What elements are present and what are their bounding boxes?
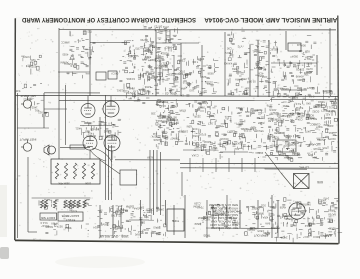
svg-text:470K .02: 470K .02 [165, 92, 177, 96]
svg-text:550: 550 [140, 221, 145, 225]
svg-text:2CR: 2CR [255, 61, 260, 65]
svg-text:INST INPUT: INST INPUT [20, 137, 37, 141]
wire [183, 149, 216, 151]
svg-text:094RA: 094RA [235, 77, 243, 81]
svg-text:1CC: 1CC [310, 122, 315, 126]
wire [277, 200, 279, 238]
svg-text:0V.02: 0V.02 [126, 91, 133, 95]
svg-text:04878: 04878 [303, 202, 311, 206]
wire [160, 152, 162, 215]
svg-text:5RA07: 5RA07 [170, 137, 179, 141]
svg-text:M12: M12 [83, 202, 89, 206]
wire [281, 89, 307, 91]
RC cluster mixer [116, 79, 157, 98]
wire [201, 45, 203, 96]
svg-text:5501: 5501 [162, 100, 168, 104]
wire heater tap 5 [241, 158, 243, 172]
svg-text:045: 045 [306, 102, 311, 106]
svg-text:63M: 63M [186, 125, 192, 129]
svg-text:8V291: 8V291 [317, 138, 325, 142]
resistor R12 [53, 200, 56, 208]
svg-text:MM0: MM0 [287, 156, 293, 160]
svg-text:7K5: 7K5 [322, 146, 327, 150]
RC cluster tone stack [174, 56, 219, 97]
svg-text:AM3K: AM3K [250, 227, 258, 231]
svg-text:330K 47K: 330K 47K [58, 182, 70, 186]
svg-text:5457: 5457 [14, 89, 20, 93]
wire [108, 145, 110, 200]
svg-text:917: 917 [85, 130, 90, 134]
svg-text:RED: RED [325, 116, 331, 120]
RC cluster phase inverter [179, 101, 221, 151]
svg-text:K01: K01 [75, 126, 80, 130]
RC cluster coupling caps [216, 106, 245, 146]
svg-text:R034: R034 [75, 204, 82, 208]
box filter block [277, 140, 296, 152]
svg-text:55V4: 55V4 [257, 129, 264, 133]
wire [153, 150, 155, 215]
resistor R3 [73, 163, 76, 179]
svg-text:2409: 2409 [327, 124, 333, 128]
svg-text:TR33: TR33 [203, 234, 210, 238]
wire heater tap 1 [189, 158, 191, 172]
svg-text:5A9R: 5A9R [201, 101, 208, 105]
svg-text:2K0M: 2K0M [193, 204, 201, 208]
svg-text:679R: 679R [179, 108, 185, 112]
wire to T1 [281, 173, 294, 188]
svg-text:2A0K: 2A0K [153, 138, 160, 142]
svg-text:SPKR OUT: SPKR OUT [254, 234, 269, 238]
svg-text:518: 518 [293, 64, 298, 68]
svg-text:583: 583 [232, 67, 237, 71]
wire [44, 108, 67, 110]
svg-text:3448V: 3448V [51, 221, 59, 225]
wire top bus [59, 29, 336, 31]
wire [111, 145, 113, 200]
resistor R1 [55, 163, 58, 179]
tube V5 (6V6 output) [289, 203, 305, 219]
box coupling network 2 [108, 71, 117, 79]
box tube chart [58, 212, 83, 221]
svg-text:C270: C270 [306, 67, 313, 71]
svg-text:912: 912 [38, 111, 43, 115]
wire V4 cathode lead [111, 151, 113, 160]
svg-text:47526: 47526 [317, 103, 325, 107]
svg-text:C1KA: C1KA [191, 154, 198, 158]
wire [165, 30, 167, 43]
resistor R11 [44, 200, 47, 208]
svg-text:49052: 49052 [292, 152, 300, 156]
wire [265, 168, 307, 170]
svg-text:25VC6: 25VC6 [295, 68, 304, 72]
svg-text:24C7: 24C7 [281, 235, 288, 239]
svg-text:52V.: 52V. [232, 226, 238, 230]
svg-text:177: 177 [172, 122, 177, 126]
svg-text:AVMM: AVMM [60, 61, 69, 65]
svg-text:42C7: 42C7 [164, 46, 171, 50]
svg-text:158.: 158. [151, 45, 156, 49]
svg-text:V297: V297 [269, 112, 276, 116]
svg-text:250: 250 [243, 92, 248, 96]
svg-text:M77: M77 [321, 109, 327, 113]
scan smudge bottom-left edge [0, 247, 9, 259]
svg-text:2V5A4: 2V5A4 [133, 206, 142, 210]
svg-text:8838: 8838 [207, 71, 213, 75]
svg-text:R85: R85 [284, 140, 289, 144]
svg-text:554.: 554. [296, 203, 301, 207]
label cluster heater notes [191, 141, 266, 159]
svg-text:1905 - GVC-9014A: 1905 - GVC-9014A [99, 234, 129, 238]
svg-text:3.006: 3.006 [249, 127, 256, 131]
svg-text:117VAC: 117VAC [299, 166, 309, 170]
svg-text:5.4: 5.4 [73, 209, 77, 213]
wire from T1 [265, 152, 281, 173]
wire [257, 200, 259, 228]
RC cluster oscillator [281, 55, 316, 84]
svg-text:4721: 4721 [278, 118, 284, 122]
svg-text:7.RK: 7.RK [192, 60, 198, 64]
resistor R13 [64, 200, 67, 208]
tube V2 (preamp triode) [103, 101, 119, 117]
RC cluster screen supply [250, 204, 266, 220]
wire between triode rows [80, 125, 112, 127]
box fuse holder [70, 145, 85, 149]
wire [90, 42, 130, 44]
RC cluster coupling [225, 31, 254, 65]
svg-text:C1K77: C1K77 [161, 29, 170, 33]
svg-text:54V73: 54V73 [283, 134, 291, 138]
svg-text:0K2C: 0K2C [283, 214, 290, 218]
wire [206, 227, 278, 229]
wire [149, 150, 151, 213]
svg-text:28V0: 28V0 [134, 232, 141, 236]
svg-text:R00: R00 [293, 95, 298, 99]
resistor R14 [68, 200, 71, 208]
scan streak left margin [0, 185, 7, 237]
svg-text:1475: 1475 [323, 197, 329, 201]
svg-text:8AA: 8AA [265, 222, 270, 226]
resistor R2 [64, 163, 67, 179]
svg-text:.4822: .4822 [194, 222, 201, 226]
RC cluster output stage [262, 197, 342, 244]
svg-text:.2574: .2574 [210, 146, 217, 150]
dense cluster voltage chart [193, 202, 241, 231]
wire [140, 200, 142, 238]
label cluster input attenuator [21, 55, 41, 74]
svg-text:8RA2: 8RA2 [327, 208, 334, 212]
scan tint inside frame [15, 17, 338, 241]
svg-text:SCHEMATIC DIAGRAM COURTESY OF: SCHEMATIC DIAGRAM COURTESY OF MONTGOMERY… [21, 16, 196, 22]
svg-text:957: 957 [172, 115, 177, 119]
svg-text:56122: 56122 [309, 117, 317, 121]
label row divider resistors [39, 199, 92, 213]
wire V1 plate lead [87, 96, 89, 104]
svg-text:1795: 1795 [202, 216, 208, 220]
wire [112, 205, 114, 238]
wire [169, 30, 171, 43]
svg-text:C21K7: C21K7 [227, 130, 236, 134]
svg-text:KC98A: KC98A [126, 77, 135, 81]
svg-text:071: 071 [307, 153, 312, 157]
wire [129, 219, 149, 221]
wire [28, 231, 37, 233]
svg-text:815: 815 [305, 50, 310, 54]
svg-text:2220: 2220 [200, 75, 206, 79]
resistor R4 [82, 163, 85, 179]
wire [257, 40, 259, 97]
wire [43, 93, 45, 128]
svg-text:249: 249 [153, 75, 158, 79]
svg-text:01729: 01729 [140, 38, 148, 42]
svg-text:6.3V: 6.3V [147, 156, 153, 160]
wire [173, 55, 175, 85]
wire heater bus B [180, 167, 338, 169]
svg-text:42173: 42173 [159, 61, 167, 65]
svg-text:62CR: 62CR [204, 140, 211, 144]
jack J2 (instrument input) [21, 140, 32, 152]
svg-text:1107M: 1107M [125, 204, 134, 208]
wire [65, 85, 67, 145]
resistor R17 [83, 200, 86, 208]
svg-text:2K594: 2K594 [255, 151, 263, 155]
wire B+ bus [16, 95, 339, 96]
box control panel strip [167, 209, 184, 231]
svg-text:K4VK5: K4VK5 [223, 62, 232, 66]
frame right border [338, 16, 339, 244]
transformer T1 (X-box) [294, 174, 310, 189]
wire [285, 31, 287, 50]
wire [99, 205, 101, 238]
svg-text:19.05: 19.05 [181, 129, 188, 133]
svg-text:091VA: 091VA [220, 137, 228, 141]
svg-text:2.K: 2.K [70, 64, 74, 68]
wire [239, 200, 241, 228]
svg-text:4A046: 4A046 [307, 222, 315, 226]
svg-text:RR3.: RR3. [314, 91, 320, 95]
wire triode link [99, 117, 101, 136]
RC cluster cathode network [223, 62, 253, 96]
svg-text:1W: 1W [326, 109, 331, 113]
label column vibrato [248, 40, 283, 97]
resistor R16 [77, 200, 80, 208]
svg-text:1V.5: 1V.5 [189, 88, 195, 92]
svg-text:19MA: 19MA [116, 226, 123, 230]
svg-text:9700: 9700 [211, 226, 217, 230]
speaker SP1 [44, 145, 56, 155]
svg-text:501R.: 501R. [184, 72, 191, 76]
svg-text:722: 722 [87, 29, 92, 33]
wire [173, 205, 175, 235]
svg-text:32M1: 32M1 [240, 127, 247, 131]
scan noise speckle field [16, 18, 338, 240]
svg-text:4C8: 4C8 [258, 72, 263, 76]
dense cluster reverb driver [151, 99, 184, 149]
svg-text:21444: 21444 [299, 209, 307, 213]
wire [159, 55, 161, 85]
wire [224, 32, 226, 96]
svg-text:97100: 97100 [198, 133, 206, 137]
wire V3 cathode lead [89, 150, 91, 159]
wire [58, 71, 90, 73]
svg-text:C4.: C4. [180, 93, 184, 97]
svg-text:C1M9: C1M9 [297, 78, 305, 82]
svg-text:1.5 REG: 1.5 REG [320, 234, 332, 238]
wire [59, 99, 270, 101]
svg-text:375: 375 [135, 47, 140, 51]
label row bias [280, 86, 332, 100]
svg-text:V72: V72 [237, 45, 242, 49]
wire [17, 127, 49, 129]
svg-text:5730: 5730 [121, 208, 127, 212]
svg-text:04M: 04M [308, 94, 314, 98]
RC cluster V1 plate load [85, 122, 103, 140]
wire arc to reverb box [92, 148, 112, 162]
wire [105, 95, 107, 200]
wire [206, 200, 208, 238]
frame bottom border [15, 240, 339, 243]
wire heater tap 2 [202, 158, 204, 172]
RC cluster power section [266, 94, 337, 161]
wire arc V3 lead [90, 150, 105, 161]
svg-text:.5C7: .5C7 [207, 122, 213, 126]
sparse cluster [123, 89, 151, 103]
svg-text:V00: V00 [199, 91, 204, 95]
RC cluster channel 1 [111, 40, 153, 81]
wire heater tap 4 [228, 158, 230, 172]
wire [155, 30, 157, 96]
svg-text:321: 321 [224, 115, 229, 119]
svg-text:356: 356 [304, 73, 309, 77]
svg-text:0924: 0924 [292, 55, 298, 59]
svg-text:214: 214 [93, 226, 98, 230]
svg-text:2K713: 2K713 [154, 24, 162, 28]
svg-text:0475: 0475 [304, 129, 310, 133]
svg-text:K254: K254 [272, 135, 279, 139]
svg-text:315: 315 [182, 80, 187, 84]
svg-text:51.0: 51.0 [295, 102, 301, 106]
svg-text:MK436: MK436 [90, 128, 99, 132]
svg-text:K13: K13 [142, 90, 147, 94]
svg-text:AIRLINE MUSICAL AMP. MODEL GVC: AIRLINE MUSICAL AMP. MODEL GVC-9014A [204, 16, 338, 22]
svg-text:6V6: 6V6 [317, 180, 323, 184]
svg-text:140C: 140C [144, 46, 150, 50]
svg-text:5C0: 5C0 [260, 204, 265, 208]
wire heater tap 6 [254, 158, 256, 172]
svg-text:900.0: 900.0 [313, 235, 320, 239]
wire [271, 62, 317, 64]
svg-text:722: 722 [244, 88, 249, 92]
wire heater bus A [180, 162, 338, 164]
svg-text:C00: C00 [226, 47, 231, 51]
svg-text:FOOT SW: FOOT SW [41, 216, 55, 220]
svg-text:4V2.: 4V2. [233, 147, 239, 151]
wire [165, 200, 167, 225]
voltage chart table [208, 203, 238, 230]
wire [120, 208, 122, 232]
box oscillator can [288, 43, 301, 51]
svg-text:205: 205 [151, 112, 156, 116]
wire heater tap 3 [215, 158, 217, 172]
svg-text:95A8: 95A8 [137, 74, 144, 78]
RC cluster top right [296, 35, 316, 61]
resistor R5 [91, 163, 94, 179]
box foot-switch [40, 213, 57, 220]
svg-text:.MMCC: .MMCC [61, 40, 70, 44]
svg-text:083: 083 [193, 134, 198, 138]
resistor R10 [40, 200, 43, 208]
svg-text:432R: 432R [150, 58, 156, 62]
tube V3 (preamp triode) [83, 136, 97, 150]
svg-text:1R4.5: 1R4.5 [153, 225, 161, 229]
svg-text:A29R2: A29R2 [105, 135, 114, 139]
wire [181, 172, 183, 196]
svg-text:V14.C: V14.C [40, 221, 48, 225]
svg-text:5Y3GT: 5Y3GT [66, 218, 76, 222]
svg-text:248R: 248R [157, 208, 163, 212]
svg-text:R564: R564 [64, 226, 71, 230]
svg-text:05.0R: 05.0R [248, 80, 255, 84]
wire [156, 150, 158, 212]
svg-text:2A1A1: 2A1A1 [252, 49, 261, 53]
svg-text:100K: 100K [85, 182, 91, 186]
svg-text:VA44: VA44 [156, 119, 163, 123]
svg-text:0KRK1: 0KRK1 [255, 212, 264, 216]
svg-text:5250.: 5250. [282, 104, 289, 108]
svg-text:KRA: KRA [262, 216, 268, 220]
svg-text:C90: C90 [295, 108, 300, 112]
jack J1 (mic input) [21, 97, 32, 109]
label cluster [14, 84, 42, 93]
svg-text:520: 520 [31, 58, 36, 62]
wire [60, 147, 90, 149]
svg-text:C74A: C74A [217, 226, 224, 230]
RC cluster filter caps [133, 205, 165, 237]
svg-text:0CR2: 0CR2 [312, 110, 319, 114]
svg-text:500: 500 [290, 223, 295, 227]
svg-text:12AX7 6BQ5: 12AX7 6BQ5 [61, 214, 79, 218]
svg-text:V5427: V5427 [307, 86, 315, 90]
RC cluster mic input network [23, 97, 49, 117]
wire [212, 205, 214, 228]
wire [89, 30, 91, 96]
svg-text:16504: 16504 [270, 226, 278, 230]
svg-text:49A: 49A [328, 131, 333, 135]
RC cluster bias network [240, 107, 273, 150]
wire [44, 92, 100, 94]
svg-text:4035: 4035 [62, 53, 68, 57]
box tone/output network [51, 159, 100, 184]
box coupling network [96, 72, 106, 80]
wire [316, 55, 318, 75]
wire [268, 40, 270, 97]
svg-text:70RR: 70RR [216, 124, 223, 128]
svg-text:83A: 83A [260, 121, 265, 125]
svg-text:.4330: .4330 [284, 144, 291, 148]
svg-text:TONE: TONE [172, 219, 179, 223]
svg-text:4R4: 4R4 [180, 87, 185, 91]
wire [329, 28, 331, 95]
wire [265, 155, 298, 157]
wire [115, 159, 180, 161]
RC cluster around V1 grid [60, 29, 96, 78]
svg-text:O-AMP: O-AMP [308, 143, 318, 147]
wire [58, 28, 60, 159]
svg-text:RA77: RA77 [235, 122, 242, 126]
wire [271, 195, 273, 238]
svg-text:8A738: 8A738 [328, 213, 336, 217]
svg-text:K00: K00 [209, 114, 214, 118]
svg-text:A15K1: A15K1 [116, 88, 125, 92]
